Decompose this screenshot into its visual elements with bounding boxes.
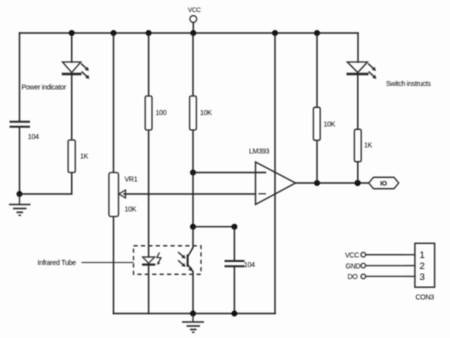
svg-text:2: 2 [420,261,425,272]
connector CON3 [415,243,435,287]
svg-text:Infrared Tube: Infrared Tube [38,260,77,267]
svg-text:VR1: VR1 [125,176,138,183]
resistor 1K (left) [68,140,75,173]
wire rail to VR1 [113,33,115,173]
junction on top rail under VCC [190,30,196,36]
op-amp plus mark [259,172,267,174]
junction dot output / 1K [355,180,361,186]
VR1 wiper arrow [119,190,126,198]
dashed box infrared tube [134,246,202,274]
junction dot vcc/gnd feed on rail [272,30,278,36]
svg-text:Power indicator: Power indicator [22,85,67,92]
wire resistor 1K to ground wire [71,173,73,195]
wire node B to phototransistor collector [188,227,193,256]
LED D2 emission arrows [368,64,376,80]
junction dot at cap top [231,224,237,230]
wire VR1 bottom to bottom rail [113,217,115,314]
svg-text:1: 1 [420,250,425,261]
junction dot LED branch on rail [69,30,75,36]
wire cap C2 bottom lead [233,267,235,314]
svg-text:DO: DO [348,274,359,281]
svg-text:1K: 1K [80,154,89,161]
VCC terminal circle (CON3) [361,252,366,257]
IO port flag [369,177,399,188]
wire cap to ground node [19,127,21,194]
wire LED D2 to resistor 1K right [357,75,359,130]
svg-text:3: 3 [420,272,425,283]
wire rail to LED D1 [71,33,73,62]
svg-text:1K: 1K [364,142,373,149]
GND terminal circle (CON3) [361,263,366,268]
leader line to dashed box [82,262,134,264]
Q1 light arrows [178,252,186,267]
wire GND to pin 2 [366,265,405,267]
capacitor C1 104 [10,122,31,127]
resistor 1K (right) [354,129,361,161]
wire bottom rail [114,313,276,315]
junction dot cap branch on bottom rail [231,311,237,317]
svg-text:VCC: VCC [345,252,359,259]
CON3 pin 1 stub [405,254,415,256]
Q1 base bar [187,255,189,267]
wire IR LED to bottom rail [148,266,150,314]
svg-text:CON3: CON3 [416,295,435,302]
wire plus input (node A to op-amp) [193,172,266,174]
phototransistor Q1 [178,252,193,272]
svg-text:Switch instructs: Switch instructs [386,81,431,88]
wire DO to pin 3 [366,275,405,277]
wire node A down to node B [192,173,194,227]
wire resistor 10K to node A [192,130,194,173]
node VCC stub [192,23,194,34]
LED D1 emission arrows [81,64,89,80]
junction dot 100-ohm branch on rail [146,30,152,36]
resistor 10K (right) [313,107,320,140]
wire resistor 1K right to output [357,162,359,183]
IR LED lightning emission mark [157,253,161,264]
CON3 pin 2 stub [405,265,415,267]
wire cap C2 top lead [233,227,235,261]
resistor 10K (center) [190,96,197,130]
LED D1 power indicator [62,62,90,79]
capacitor C2 104 [225,261,245,266]
svg-text:VCC: VCC [188,7,201,14]
CON3 pin 3 stub [405,275,415,277]
svg-text:LM393: LM393 [249,148,270,155]
node B junction (cap tap) [190,224,196,230]
wire left vertical (rail to cap) [19,33,21,122]
Q1 emitter arrowhead [188,267,193,272]
svg-text:IO: IO [380,181,387,188]
wire resistor 100 to IR LED [148,130,150,257]
wire node B to capacitor C2 [193,226,234,228]
svg-text:104: 104 [244,262,255,269]
wire rail to resistor 10K center [192,33,194,96]
junction dot 10K pull-up on rail [314,30,320,36]
wire minus input (VR1 wiper to op-amp) [124,193,256,195]
potentiometer VR1 [109,173,119,217]
wire op-amp output [296,182,369,184]
LED D2 switch indicator [347,62,377,79]
wire vertical power feed through op-amp [274,33,276,314]
wire top rail [20,32,359,34]
wire VCC to pin 1 [366,254,405,256]
IR LED (emitter diode) [142,253,161,265]
svg-text:104: 104 [28,134,39,141]
ground (bottom center) [182,314,204,333]
junction dot output / 10K [314,180,320,186]
ground (left) [9,194,31,215]
svg-text:GND: GND [346,263,361,270]
op-amp minus mark [259,193,267,195]
wire resistor 10K right to output [316,140,318,183]
wire rail to resistor 10K right [316,33,318,107]
node A junction (plus input tap) [190,170,196,176]
wire rail end down to LED D2 [357,33,359,62]
wire rail to resistor 100 [148,33,150,96]
wire 1K bottom to ground node [20,193,72,195]
resistor 100 [145,96,152,130]
wire LED D1 to resistor 1K [71,75,73,141]
node junction at (20,194) [17,191,23,197]
op-amp U1 LM393 [256,162,296,205]
svg-text:10K: 10K [200,110,212,117]
svg-text:10K: 10K [125,206,137,213]
VCC terminal circle [190,16,197,23]
svg-text:10K: 10K [324,121,336,128]
DO terminal circle (CON3) [361,274,366,279]
junction dot VR1 branch on rail [111,30,117,36]
node ground junction on bottom rail [190,311,196,317]
svg-text:100: 100 [156,110,167,117]
wire phototransistor emitter to bottom rail [188,265,193,313]
